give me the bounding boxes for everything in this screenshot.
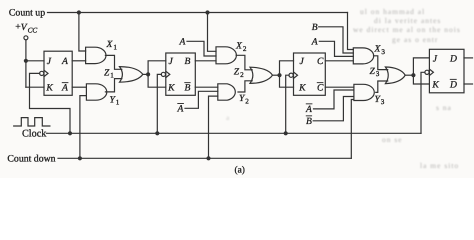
wire Y2 output to OR2 — [238, 81, 252, 92]
wire Y3 output to OR3 — [376, 81, 388, 92]
wire Z3 to K of FF D — [413, 75, 429, 84]
svg-text:J: J — [169, 56, 174, 67]
wire Bbar stub to Y3 — [313, 97, 354, 121]
node Z1 junction — [146, 72, 150, 76]
count-up rail — [48, 12, 348, 14]
caption (a) — [235, 165, 245, 175]
wire X1 output to OR1 — [105, 55, 121, 69]
label Abar stub stage2 — [177, 103, 184, 115]
node clock junction FF C — [284, 131, 288, 135]
OR gate Z1 — [120, 67, 143, 83]
wire B output to X2 — [195, 60, 216, 62]
wire Z1 to J of FF B — [148, 61, 166, 75]
wire OR2 output — [273, 74, 280, 76]
svg-text:3: 3 — [381, 98, 385, 106]
pin J of U2 — [169, 56, 174, 67]
wire Z2 to K of FF C — [280, 75, 294, 87]
clock bubble U1 — [40, 71, 44, 75]
wire A stub to X2 — [187, 41, 216, 56]
AND gate X2 — [216, 47, 236, 64]
node count-up to X2 junction — [205, 10, 209, 14]
svg-text:A: A — [61, 83, 68, 94]
flip-flop U1 (A) box — [44, 51, 72, 95]
svg-text:Z: Z — [234, 67, 240, 78]
svg-text:J: J — [47, 56, 52, 67]
wire VCC vertical to J and K of FF A — [25, 40, 27, 87]
pin K of U1 — [45, 83, 53, 94]
clock wedge U2 — [166, 71, 170, 77]
label Abar stub stage3 — [305, 103, 312, 115]
wire Z1 to K of FF B — [148, 74, 166, 87]
label X3 — [374, 44, 386, 56]
svg-text:K: K — [298, 83, 306, 94]
svg-text:J: J — [433, 53, 438, 64]
svg-text:1: 1 — [113, 43, 117, 51]
label Z2 — [234, 67, 244, 79]
wire count-up drop to X1 — [79, 13, 86, 52]
pin J of U1 — [47, 56, 52, 67]
pin Cbar of U3 — [317, 82, 324, 94]
OR gate Z3 — [385, 67, 405, 84]
svg-text:X: X — [235, 41, 243, 52]
AND gate Y2 — [218, 84, 236, 100]
wire clock riser to U3 — [286, 75, 289, 133]
svg-text:A: A — [179, 37, 186, 48]
wire OR3 output — [405, 74, 413, 76]
count-down rail — [58, 157, 351, 159]
svg-text:B: B — [185, 83, 191, 94]
pin D of U4 — [449, 53, 457, 64]
svg-text:Z: Z — [370, 66, 376, 77]
pin K of U2 — [167, 83, 175, 94]
label A stub stage3 — [311, 37, 318, 48]
node VCC to J junction — [24, 59, 28, 63]
svg-text:D: D — [449, 79, 457, 90]
svg-text:Count up: Count up — [9, 7, 45, 18]
svg-text:s na: s na — [436, 103, 452, 112]
wire Abar stub to Y3 — [314, 90, 354, 109]
clock wedge U3 — [294, 72, 298, 78]
count down label — [7, 154, 55, 165]
label Y2 — [239, 93, 249, 105]
OR gate Z2 — [250, 67, 273, 83]
clock waveform symbol — [14, 118, 50, 126]
clock bubble U2 — [161, 72, 165, 76]
svg-text:ul on hammad al: ul on hammad al — [360, 7, 425, 16]
flip-flop U3 (C) box — [294, 53, 326, 95]
VCC terminal — [24, 36, 28, 40]
wire count-up corner to X3 — [348, 13, 354, 50]
AND gate X1 — [86, 47, 106, 63]
wire Z3 to J of FF D — [413, 58, 429, 75]
svg-text:K: K — [167, 83, 175, 94]
pin Abar of U1 — [61, 82, 68, 94]
svg-text:B: B — [312, 22, 318, 33]
pin J of U4 — [433, 53, 438, 64]
svg-text:la me sito: la me sito — [420, 161, 459, 170]
wire A output to X1 — [72, 60, 85, 62]
wire Abar stub to Y2 — [185, 91, 218, 108]
svg-text:D: D — [449, 53, 457, 64]
node Z2 junction — [277, 73, 281, 77]
wire Bbar output to Y2 — [195, 86, 218, 88]
label Z3 — [370, 66, 380, 78]
svg-text:J: J — [300, 56, 305, 67]
svg-text:Count down: Count down — [7, 154, 55, 165]
pin J of U3 — [300, 56, 305, 67]
wire count-down corner to Y3 — [351, 100, 354, 159]
svg-text:2: 2 — [245, 97, 249, 105]
wire OR1 output — [143, 73, 148, 75]
wire Z2 to J of FF C — [280, 61, 294, 75]
wire Dbar output stub — [464, 83, 473, 85]
node count-up to X1 junction — [77, 10, 81, 14]
svg-text:2: 2 — [240, 71, 244, 79]
svg-text:A: A — [177, 104, 184, 115]
label X2 — [235, 41, 247, 53]
clock bubble U3 — [289, 73, 293, 77]
wire X2 output to OR2 — [236, 55, 252, 70]
svg-text:X: X — [374, 44, 382, 55]
svg-text:3: 3 — [376, 70, 380, 78]
AND gate Y1 — [86, 84, 106, 100]
svg-text:Clock: Clock — [22, 129, 47, 140]
pin B of U2 — [185, 56, 191, 67]
svg-text:A: A — [305, 104, 312, 115]
wire VCC to J of FF A — [26, 60, 44, 62]
wire VCC to K of FF A — [26, 86, 44, 88]
clock rail — [47, 132, 422, 134]
svg-text:K: K — [45, 83, 53, 94]
label Y1 — [110, 94, 120, 106]
node clock junction FF A — [68, 131, 72, 135]
svg-text:B: B — [306, 116, 312, 127]
svg-text:C: C — [317, 56, 324, 67]
wire clock to U1 — [30, 73, 71, 133]
wire Cbar output to Y3 — [325, 86, 354, 88]
AND gate X3 — [353, 48, 373, 64]
label X1 — [106, 39, 118, 51]
svg-text:K: K — [431, 79, 439, 90]
pin Bbar of U2 — [184, 82, 190, 94]
svg-text:X: X — [106, 39, 114, 50]
label A stub stage2 — [179, 37, 186, 48]
wire Y1 output to OR1 — [105, 79, 121, 92]
pin C of U3 — [317, 56, 324, 67]
clock wedge U1 — [44, 70, 48, 76]
wire C output to X3 — [325, 60, 353, 62]
svg-text:A: A — [61, 56, 68, 67]
svg-text:di la verite antes: di la verite antes — [374, 16, 441, 25]
clock label — [22, 129, 47, 140]
svg-text:C: C — [317, 83, 324, 94]
svg-text:3: 3 — [381, 48, 385, 56]
wire X3 output to OR3 — [374, 56, 388, 70]
+VCC label — [15, 22, 37, 35]
label B stub stage3 — [312, 22, 318, 33]
svg-text:1: 1 — [110, 72, 114, 80]
node count-down to Y2 junction — [206, 156, 210, 160]
wire Abar output to Y1 — [72, 86, 86, 88]
pin K of U3 — [298, 83, 306, 94]
label Z1 — [104, 67, 114, 79]
pin Dbar of U4 — [449, 79, 457, 91]
wire D output stub — [464, 57, 473, 59]
wire B stub to X3 — [319, 27, 354, 53]
label Y3 — [375, 94, 385, 106]
wire count-down riser to Y1 — [80, 96, 87, 159]
wire clock riser to U2 — [157, 74, 161, 133]
pin K of U4 — [431, 79, 439, 90]
wire clock corner to U4 — [421, 72, 425, 133]
svg-text:we direct me al on the nois: we direct me al on the nois — [353, 25, 461, 34]
svg-text:a: a — [226, 113, 230, 122]
AND gate Y3 — [354, 84, 374, 100]
node Z3 junction — [411, 73, 415, 77]
node clock junction FF B — [155, 131, 159, 135]
svg-text:B: B — [185, 56, 191, 67]
pin A of U1 — [61, 56, 68, 67]
flip-flop U2 (B) box — [166, 53, 196, 95]
node count-down to Y1 junction — [78, 156, 82, 160]
svg-text:ge as o entr: ge as o entr — [392, 35, 438, 44]
svg-text:1: 1 — [116, 99, 120, 107]
wire A stub to X3 — [319, 41, 353, 56]
clock wedge U4 — [429, 69, 433, 75]
svg-text:CC: CC — [28, 27, 38, 35]
svg-text:A: A — [311, 37, 318, 48]
wire count-down riser to Y2 — [209, 96, 218, 158]
svg-text:2: 2 — [243, 45, 247, 53]
count up label — [9, 7, 45, 18]
label Bbar stub stage3 — [306, 115, 312, 127]
wire count-up drop to X2 — [208, 13, 217, 52]
svg-text:Z: Z — [104, 67, 110, 78]
svg-text:on se: on se — [382, 135, 403, 144]
flip-flop U4 (D) box — [429, 49, 464, 93]
clock bubble U4 — [425, 70, 429, 74]
svg-text:(a): (a) — [235, 165, 245, 175]
